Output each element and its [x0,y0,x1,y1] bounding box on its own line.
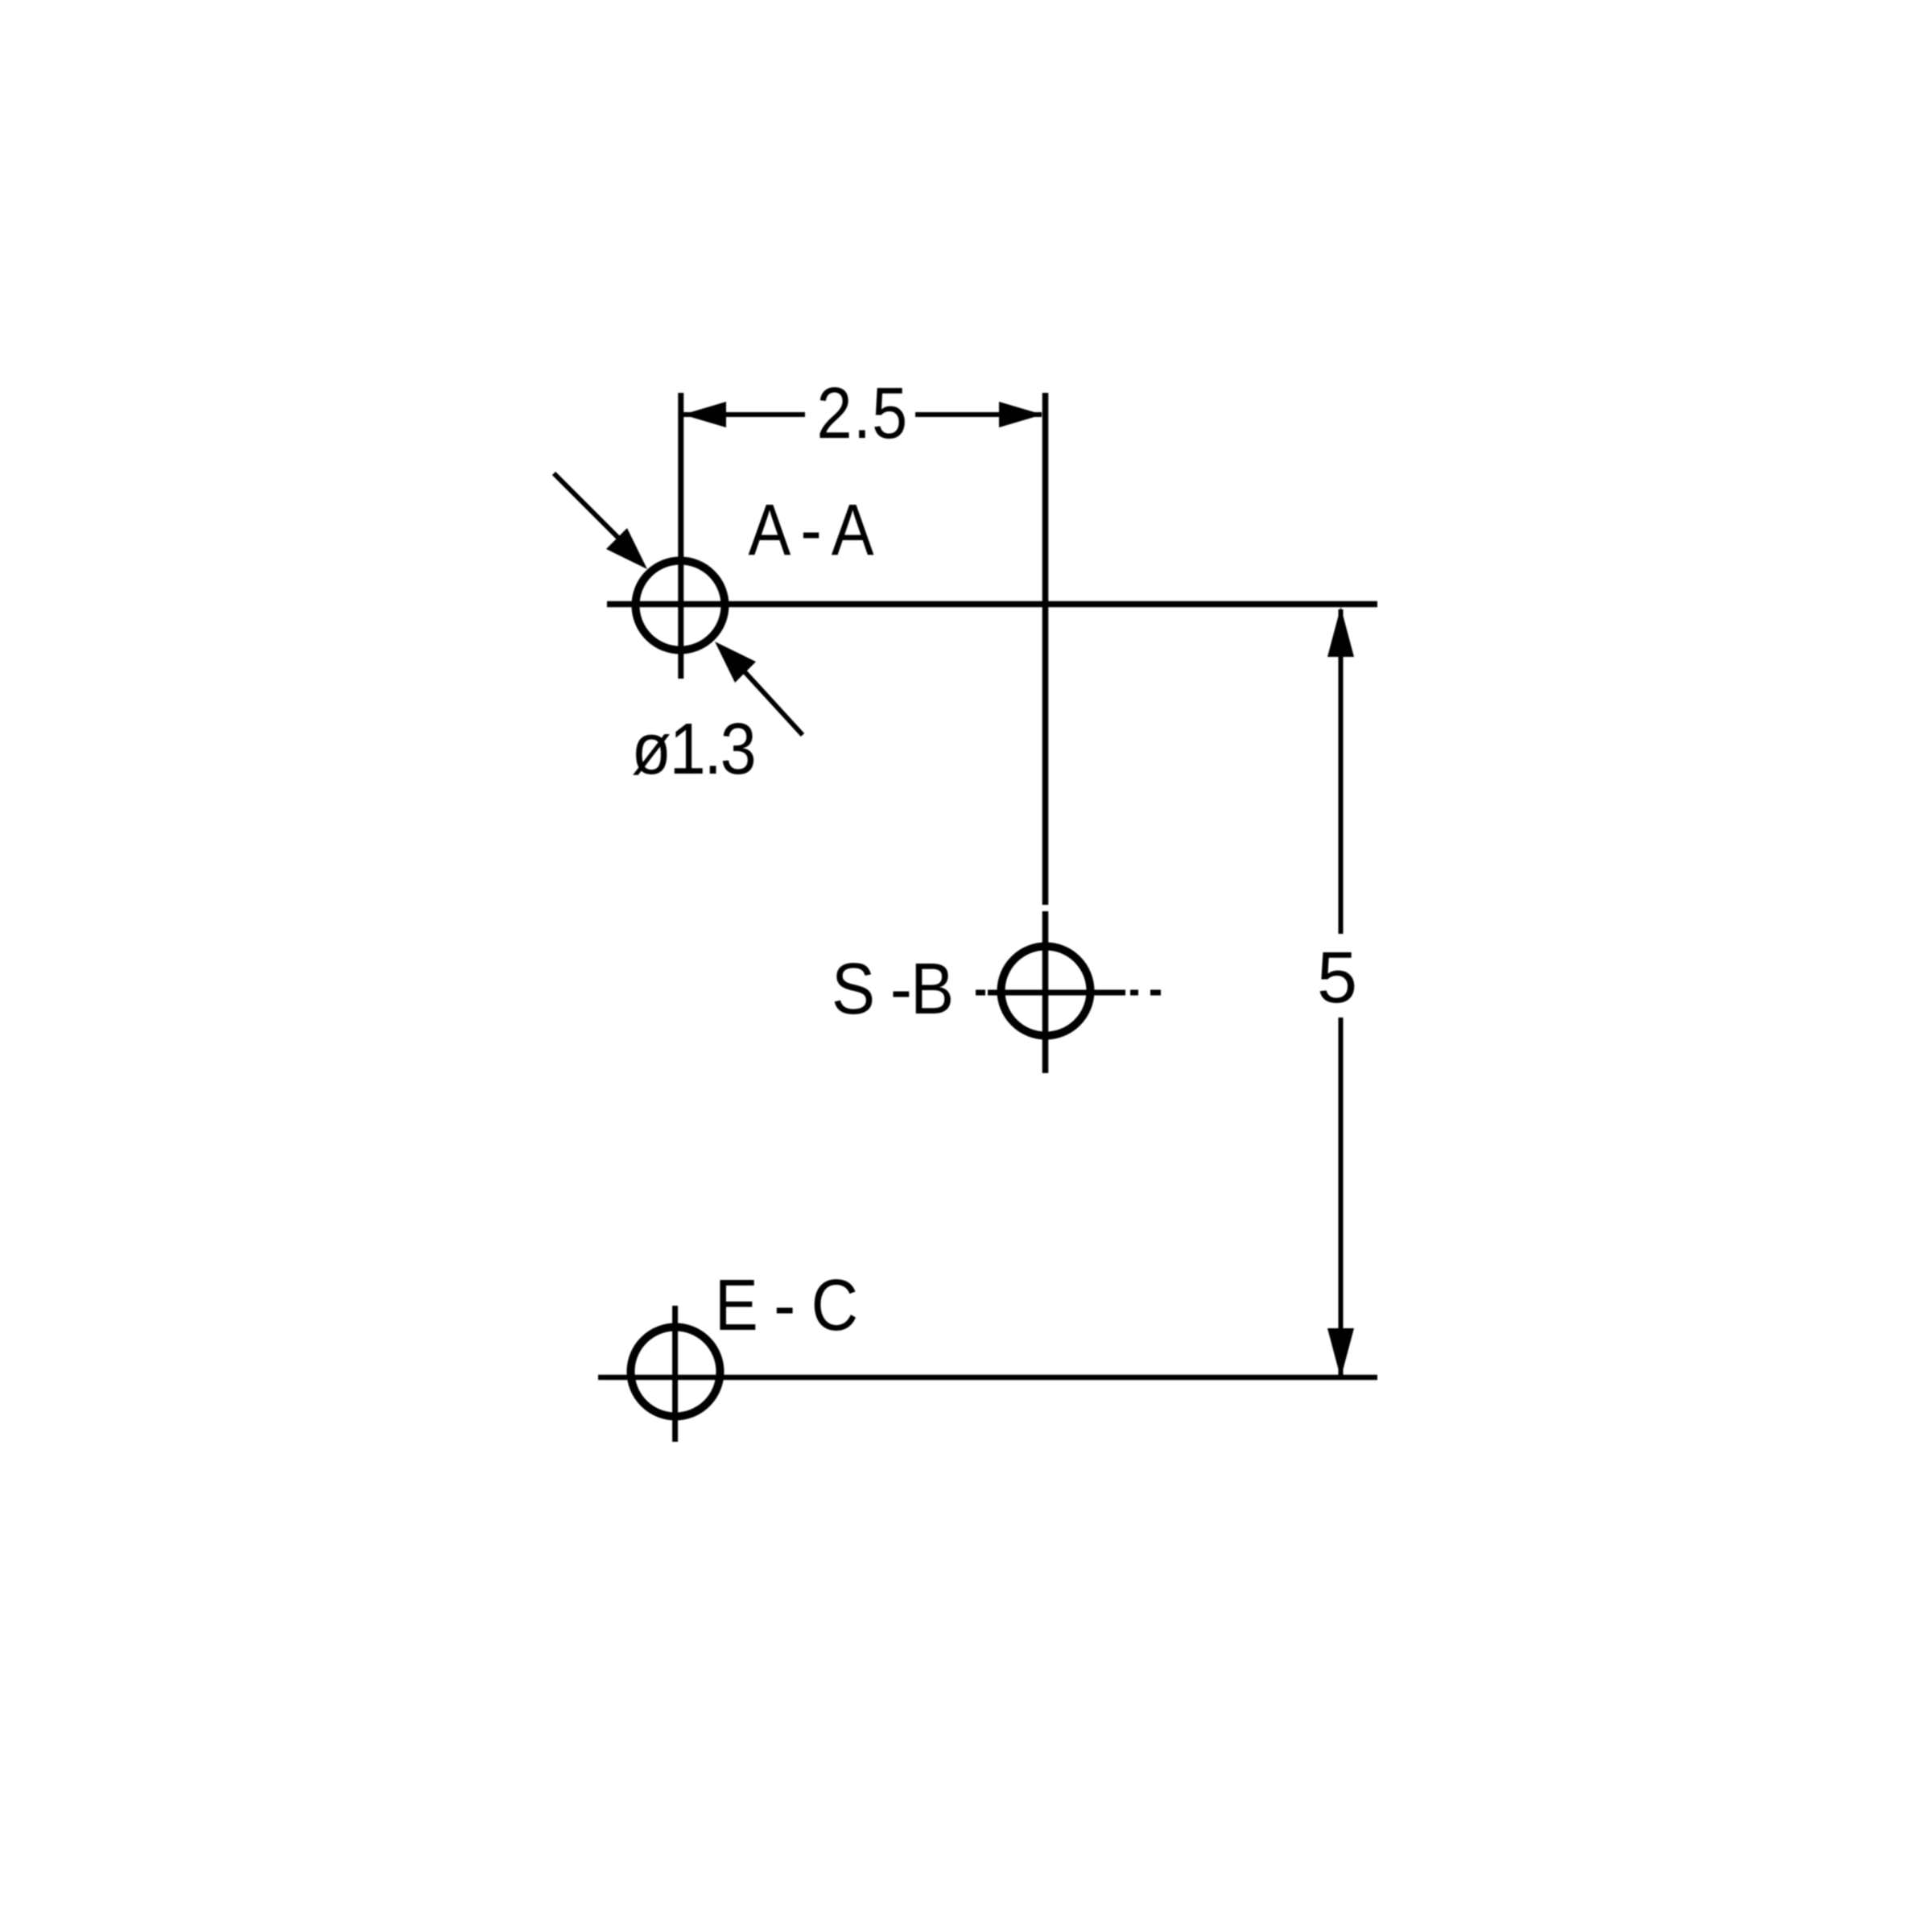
dimension line 5 upper segment [1339,609,1344,934]
node E-C hole circle [631,1327,720,1417]
wire E-C vertical crosshair [672,1306,678,1442]
arrowhead dim 5 up [1327,607,1354,657]
arrowhead dim 2.5 right [999,402,1042,427]
node A-A hole circle [636,561,725,650]
dimension line 2.5 left segment [681,412,805,417]
wire leader lower-right [741,667,803,735]
wire A-A vertical extension line [678,393,683,679]
arrowhead dim 5 down [1327,1328,1354,1378]
node S-B hole circle [1001,947,1091,1036]
svg-text:ø1.3: ø1.3 [631,708,754,790]
wire S-B vertical extension lower [1042,911,1049,1073]
arrowhead leader upper-left [606,528,647,569]
wire leader upper-left [554,473,626,546]
wire S-B horizontal centerline dashes [976,990,985,996]
wire A-A horizontal centerline [607,601,1377,608]
arrowhead leader lower-right [715,642,756,683]
wire E-C horizontal centerline [598,1375,1377,1381]
dimension line 2.5 right segment [915,412,1042,417]
arrowhead dim 2.5 left [683,402,726,427]
svg-text:A - A: A - A [749,489,874,570]
wire S-B vertical extension upper [1042,393,1049,905]
svg-text:S -B: S -B [832,948,952,1030]
svg-text:E - C: E - C [715,1265,857,1346]
svg-text:5: 5 [1317,938,1357,1018]
dimension line 5 lower segment [1339,1018,1344,1377]
svg-text:2.5: 2.5 [817,372,909,453]
